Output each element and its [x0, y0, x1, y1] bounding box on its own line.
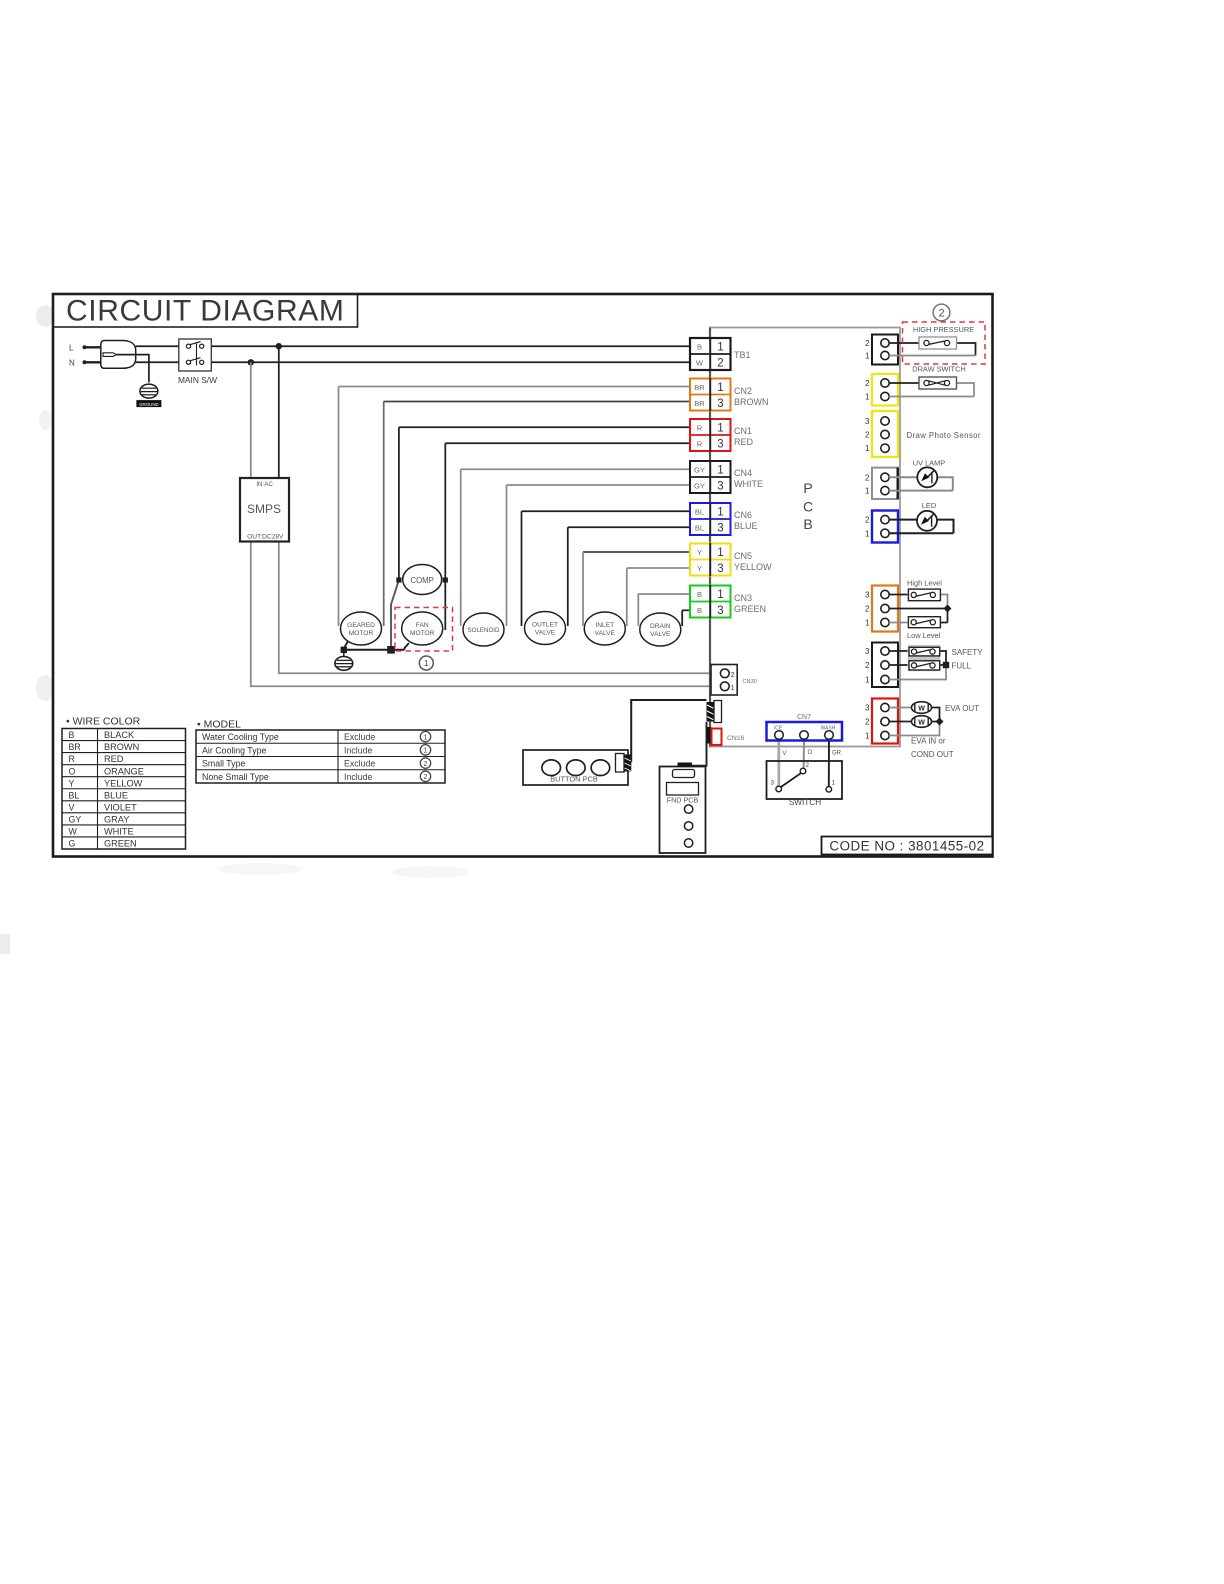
svg-text:GREEN: GREEN — [734, 604, 766, 614]
svg-text:SWITCH: SWITCH — [789, 798, 821, 807]
wire low level — [889, 609, 948, 623]
fan motor FAN MOTOR — [402, 612, 443, 645]
svg-text:BR: BR — [694, 399, 705, 408]
wire draw switch loop — [889, 383, 974, 397]
svg-text:GR: GR — [832, 751, 842, 757]
svg-text:2: 2 — [717, 358, 723, 370]
svg-text:1: 1 — [865, 529, 870, 538]
selector switch SWITCH — [767, 761, 843, 807]
svg-text:SMPS: SMPS — [247, 502, 281, 516]
svg-text:LED: LED — [922, 501, 936, 510]
svg-text:V: V — [783, 751, 787, 757]
svg-text:OUTLET: OUTLET — [532, 622, 558, 629]
connector CN6 — [690, 503, 758, 536]
wire N junction down to SMPS — [250, 362, 252, 478]
connector CN7 — [767, 714, 843, 741]
UV lamp symbol — [913, 459, 946, 488]
svg-text:R: R — [697, 440, 703, 449]
junction node eva — [936, 718, 944, 726]
svg-text:BL: BL — [695, 524, 704, 533]
svg-text:WHITE: WHITE — [734, 479, 763, 489]
fnd pcb FND PCB — [660, 763, 706, 854]
svg-text:IN:AC: IN:AC — [256, 481, 273, 488]
svg-text:3: 3 — [717, 398, 723, 410]
svg-text:1: 1 — [832, 780, 836, 787]
svg-text:2: 2 — [865, 516, 870, 525]
svg-text:Water Cooling Type: Water Cooling Type — [202, 732, 279, 742]
svg-text:CN6: CN6 — [734, 510, 752, 520]
svg-text:3: 3 — [717, 563, 723, 575]
svg-text:W: W — [918, 719, 925, 726]
svg-text:1: 1 — [865, 676, 870, 685]
wire safety return — [889, 665, 946, 680]
svg-text:2: 2 — [806, 762, 810, 769]
svg-text:Y: Y — [697, 564, 702, 573]
svg-text:BLUE: BLUE — [734, 521, 758, 531]
svg-text:None Small Type: None Small Type — [202, 772, 269, 782]
button pcb BUTTON PCB — [523, 750, 631, 785]
svg-text:2: 2 — [731, 672, 735, 679]
PCB label P C B — [803, 480, 813, 532]
connector draw switch — [865, 374, 898, 406]
svg-text:1: 1 — [865, 393, 870, 402]
drain valve DRAIN VALVE — [640, 613, 681, 646]
svg-text:CN4: CN4 — [734, 468, 752, 478]
junction node COMP left — [396, 577, 401, 582]
svg-text:1: 1 — [865, 732, 870, 741]
svg-text:W: W — [69, 827, 78, 837]
junction node COMP right — [443, 577, 448, 582]
svg-text:P: P — [803, 480, 812, 496]
svg-text:1: 1 — [717, 382, 723, 394]
svg-text:DRAIN: DRAIN — [650, 623, 671, 630]
svg-text:Draw Photo Sensor: Draw Photo Sensor — [907, 431, 981, 440]
svg-text:1: 1 — [424, 748, 428, 755]
circled 2 option marker — [933, 304, 950, 321]
svg-text:WHITE: WHITE — [104, 827, 134, 837]
wire compressor wires CN1 pin1 — [399, 427, 690, 580]
svg-text:SAFETY: SAFETY — [952, 648, 984, 657]
title box CIRCUIT DIAGRAM — [53, 294, 358, 328]
connector EVA — [865, 699, 898, 744]
svg-text:2: 2 — [865, 661, 870, 670]
svg-text:BL: BL — [695, 508, 704, 517]
svg-text:3: 3 — [865, 417, 870, 426]
svg-text:DRAW SWITCH: DRAW SWITCH — [912, 365, 966, 374]
svg-text:YELLOW: YELLOW — [734, 562, 772, 572]
svg-text:3: 3 — [771, 780, 775, 787]
wire high pressure loop — [889, 343, 976, 356]
svg-text:CN30: CN30 — [743, 679, 757, 685]
svg-text:• WIRE COLOR: • WIRE COLOR — [66, 716, 141, 728]
wire CN7 V to switch — [777, 740, 780, 788]
main switch MAIN S/W — [178, 339, 217, 385]
svg-text:RED: RED — [734, 437, 754, 447]
svg-text:VALVE: VALVE — [595, 630, 616, 637]
svg-text:Small Type: Small Type — [202, 759, 245, 769]
svg-text:1: 1 — [865, 444, 870, 453]
svg-text:W: W — [918, 705, 925, 712]
svg-text:B: B — [803, 516, 812, 532]
svg-text:COMP: COMP — [410, 576, 433, 585]
svg-text:Exclude: Exclude — [344, 759, 375, 769]
connector safety full — [865, 643, 898, 688]
svg-text:CIRCUIT DIAGRAM: CIRCUIT DIAGRAM — [66, 295, 344, 328]
draw switch symbol — [912, 365, 966, 390]
svg-text:GEARED: GEARED — [347, 622, 375, 629]
wire mid level node — [889, 608, 948, 610]
svg-text:CN1: CN1 — [734, 426, 752, 436]
wire CN7 O to switch — [803, 740, 805, 770]
svg-text:SOLENOID: SOLENOID — [468, 627, 501, 634]
svg-text:Include: Include — [344, 772, 372, 782]
wire outlet valve wires CN6 pin1 — [522, 511, 691, 626]
connector CN1 — [690, 419, 754, 452]
svg-text:Y: Y — [697, 548, 702, 557]
connector CN4 — [690, 461, 763, 494]
connector LED — [865, 511, 898, 543]
svg-text:VALVE: VALVE — [535, 630, 556, 637]
ground bus wire — [344, 641, 405, 650]
svg-text:1: 1 — [865, 352, 870, 361]
svg-text:L: L — [69, 344, 74, 353]
circled 1 option marker — [419, 656, 433, 670]
high pressure dashed box — [903, 322, 986, 364]
wire color legend table — [62, 716, 186, 850]
svg-text:MAIN S/W: MAIN S/W — [178, 375, 217, 385]
svg-text:2: 2 — [865, 473, 870, 482]
svg-text:B: B — [69, 730, 75, 740]
svg-text:GROUND: GROUND — [139, 402, 159, 407]
power plug — [83, 341, 136, 369]
inlet valve INLET VALVE — [584, 612, 625, 645]
connector CN5 — [690, 543, 772, 576]
LED symbol — [917, 501, 937, 531]
wire inlet valve wires CN5 pin3 — [627, 568, 690, 626]
connector UV lamp — [865, 468, 898, 499]
svg-text:2: 2 — [938, 308, 944, 320]
svg-text:VALVE: VALVE — [650, 631, 671, 638]
connector CN16 — [707, 727, 745, 745]
svg-text:2: 2 — [424, 761, 428, 768]
wire outlet valve wires CN6 pin3 — [568, 527, 690, 626]
wire eva out — [889, 708, 940, 722]
svg-text:HIGH PRESSURE: HIGH PRESSURE — [913, 325, 974, 334]
compressor COMP — [403, 565, 442, 595]
svg-text:1: 1 — [717, 589, 723, 601]
label GR — [832, 751, 842, 757]
svg-text:GY: GY — [69, 814, 82, 824]
svg-text:B: B — [697, 343, 702, 352]
svg-text:1: 1 — [717, 507, 723, 519]
ground symbol at geared motor — [335, 650, 353, 671]
wire SMPS output to CN30 pin1 — [251, 542, 720, 687]
svg-text:3: 3 — [717, 523, 723, 535]
low level switch symbol — [907, 617, 941, 640]
wire eva return — [889, 722, 940, 736]
svg-text:2: 2 — [865, 339, 870, 348]
safety full switch housing — [908, 645, 941, 671]
label EVA OUT — [945, 704, 979, 713]
svg-text:High Level: High Level — [907, 579, 942, 588]
wire LED loop — [889, 520, 954, 534]
svg-text:3: 3 — [865, 591, 870, 600]
svg-text:B: B — [697, 606, 702, 615]
svg-text:3: 3 — [717, 481, 723, 493]
svg-text:R: R — [697, 424, 703, 433]
svg-text:2: 2 — [865, 431, 870, 440]
wire drain valve wires CN3 pin1 — [638, 594, 690, 626]
svg-text:1: 1 — [865, 487, 870, 496]
wire solenoid wires CN4 pin1 — [461, 469, 690, 626]
svg-text:1: 1 — [717, 342, 723, 354]
svg-text:GREEN: GREEN — [104, 839, 137, 849]
svg-text:3: 3 — [865, 647, 870, 656]
junction node safety — [943, 662, 949, 668]
wire ribbon to FND pcb — [692, 722, 707, 766]
svg-text:N: N — [69, 359, 75, 368]
svg-text:Exclude: Exclude — [344, 732, 375, 742]
svg-text:OUT:DC28V: OUT:DC28V — [247, 533, 284, 540]
high level switch symbol — [907, 579, 942, 601]
connector TB1 — [690, 338, 751, 371]
svg-text:1: 1 — [424, 734, 428, 741]
wire L junction down to SMPS — [278, 346, 280, 478]
diagram border frame — [53, 294, 993, 857]
svg-text:V: V — [69, 802, 75, 812]
wire solenoid wires CN4 pin3 — [507, 485, 691, 626]
svg-text:R: R — [69, 754, 75, 764]
svg-text:BR: BR — [694, 383, 705, 392]
svg-text:BROWN: BROWN — [734, 397, 769, 407]
svg-text:Include: Include — [344, 745, 372, 755]
svg-text:B: B — [697, 590, 702, 599]
label L — [69, 344, 74, 353]
connector draw photo sensor — [865, 411, 981, 457]
eva sensor W2 — [912, 716, 932, 728]
code number box — [822, 837, 993, 855]
wire plug earth drop — [117, 355, 149, 383]
wire UV lamp loop — [889, 477, 953, 490]
svg-text:BLUE: BLUE — [104, 790, 128, 800]
svg-text:INLET: INLET — [595, 622, 614, 629]
outlet valve OUTLET VALVE — [525, 612, 566, 645]
wire safety — [889, 651, 946, 665]
svg-text:3: 3 — [717, 439, 723, 451]
SMPS power supply — [240, 478, 289, 542]
fan motor option dashed box — [395, 608, 453, 652]
wire COMP left node to ground bus — [391, 580, 399, 650]
svg-text:1: 1 — [865, 619, 870, 628]
svg-text:BLACK: BLACK — [104, 730, 135, 740]
wire L line — [136, 345, 690, 347]
PCB board outline — [710, 328, 900, 747]
svg-text:2: 2 — [424, 774, 428, 781]
junction node on N line — [248, 359, 254, 365]
wire high level — [889, 595, 948, 609]
svg-text:FND PCB: FND PCB — [667, 796, 699, 805]
svg-text:UV LAMP: UV LAMP — [913, 459, 946, 468]
wire geared motor wires CN2 pin3 — [384, 402, 690, 627]
svg-text:2: 2 — [865, 605, 870, 614]
label V — [783, 751, 787, 757]
svg-text:FAN: FAN — [416, 622, 429, 629]
svg-text:RED: RED — [104, 754, 124, 764]
svg-text:1: 1 — [717, 423, 723, 435]
svg-text:MOTOR: MOTOR — [410, 630, 435, 637]
wire eva mid — [889, 721, 940, 723]
svg-text:TB1: TB1 — [734, 350, 751, 360]
ribbon connector PCB to button pcb — [707, 701, 722, 723]
wire compressor wires CN1 pin3 — [445, 443, 690, 580]
label N — [69, 359, 75, 368]
svg-text:VIOLET: VIOLET — [104, 802, 137, 812]
svg-text:COND OUT: COND OUT — [911, 750, 954, 759]
eva sensor W1 — [912, 702, 932, 714]
svg-text:EVA IN or: EVA IN or — [911, 737, 946, 746]
junction node level — [944, 605, 952, 613]
svg-text:Y: Y — [69, 778, 75, 788]
wire drain valve wires CN3 pin3 — [682, 610, 690, 626]
connector CN2 — [690, 378, 769, 411]
svg-text:1: 1 — [717, 465, 723, 477]
wire full — [889, 664, 946, 666]
geared motor GEARED MOTOR — [341, 612, 382, 645]
svg-text:FULL: FULL — [952, 662, 972, 671]
wire fan motor left to ground bus — [405, 643, 410, 650]
svg-text:CN7: CN7 — [797, 714, 811, 721]
svg-text:CODE NO : 3801455-02: CODE NO : 3801455-02 — [829, 839, 984, 854]
svg-text:C: C — [803, 499, 813, 515]
svg-text:1: 1 — [424, 658, 429, 668]
connector CN30 — [711, 665, 757, 696]
svg-text:BUTTON PCB: BUTTON PCB — [550, 774, 598, 783]
model option table — [196, 719, 445, 784]
svg-text:CN3: CN3 — [734, 593, 752, 603]
svg-text:2: 2 — [865, 718, 870, 727]
svg-text:BL: BL — [69, 790, 80, 800]
svg-text:YELLOW: YELLOW — [104, 778, 143, 788]
wire inlet valve wires CN5 pin1 — [583, 552, 690, 626]
solenoid SOLENOID — [463, 613, 504, 646]
svg-text:O: O — [808, 750, 813, 756]
safety switch symbol — [909, 647, 983, 657]
svg-text:O: O — [69, 766, 76, 776]
wire CN7 GR to switch — [828, 740, 830, 788]
connector CN3 — [690, 585, 766, 618]
wire SMPS output to CN30 pin2 — [279, 542, 720, 674]
svg-text:GY: GY — [694, 482, 705, 491]
junction node ground bus left — [341, 647, 347, 653]
connector high pressure switch — [865, 335, 898, 365]
svg-text:• MODEL: • MODEL — [197, 719, 241, 731]
svg-text:Low Level: Low Level — [907, 631, 941, 640]
scan smudges (decorative, unlabeled region) — [0, 305, 468, 954]
svg-text:3: 3 — [865, 704, 870, 713]
wire geared motor wires CN2 pin1 — [339, 387, 691, 627]
svg-text:G: G — [69, 839, 76, 849]
svg-text:3: 3 — [717, 605, 723, 617]
connector level sensors — [865, 586, 898, 632]
svg-text:ORANGE: ORANGE — [104, 766, 144, 776]
label EVA IN or COND OUT — [911, 737, 954, 760]
junction node on L line — [276, 343, 282, 349]
svg-text:CN5: CN5 — [734, 551, 752, 561]
svg-text:BROWN: BROWN — [104, 742, 139, 752]
wire N line — [136, 361, 690, 363]
svg-text:GY: GY — [694, 466, 705, 475]
svg-text:1: 1 — [731, 685, 735, 692]
svg-text:W: W — [696, 359, 704, 368]
svg-text:GRAY: GRAY — [104, 814, 129, 824]
svg-text:1: 1 — [717, 547, 723, 559]
svg-text:CN16: CN16 — [727, 735, 745, 742]
full switch symbol — [909, 661, 972, 671]
label O — [808, 750, 813, 756]
svg-text:CN2: CN2 — [734, 386, 752, 396]
ground symbol at plug — [136, 384, 161, 407]
high pressure switch symbol — [919, 337, 957, 349]
wire COMP right node to fan motor — [444, 580, 446, 630]
svg-text:EVA OUT: EVA OUT — [945, 704, 979, 713]
wire button pcb to PCB — [631, 700, 706, 762]
svg-text:BR: BR — [69, 742, 81, 752]
svg-text:MOTOR: MOTOR — [349, 630, 374, 637]
svg-text:2: 2 — [865, 379, 870, 388]
svg-text:Air Cooling Type: Air Cooling Type — [202, 745, 266, 755]
junction node ground bus right — [387, 646, 395, 654]
